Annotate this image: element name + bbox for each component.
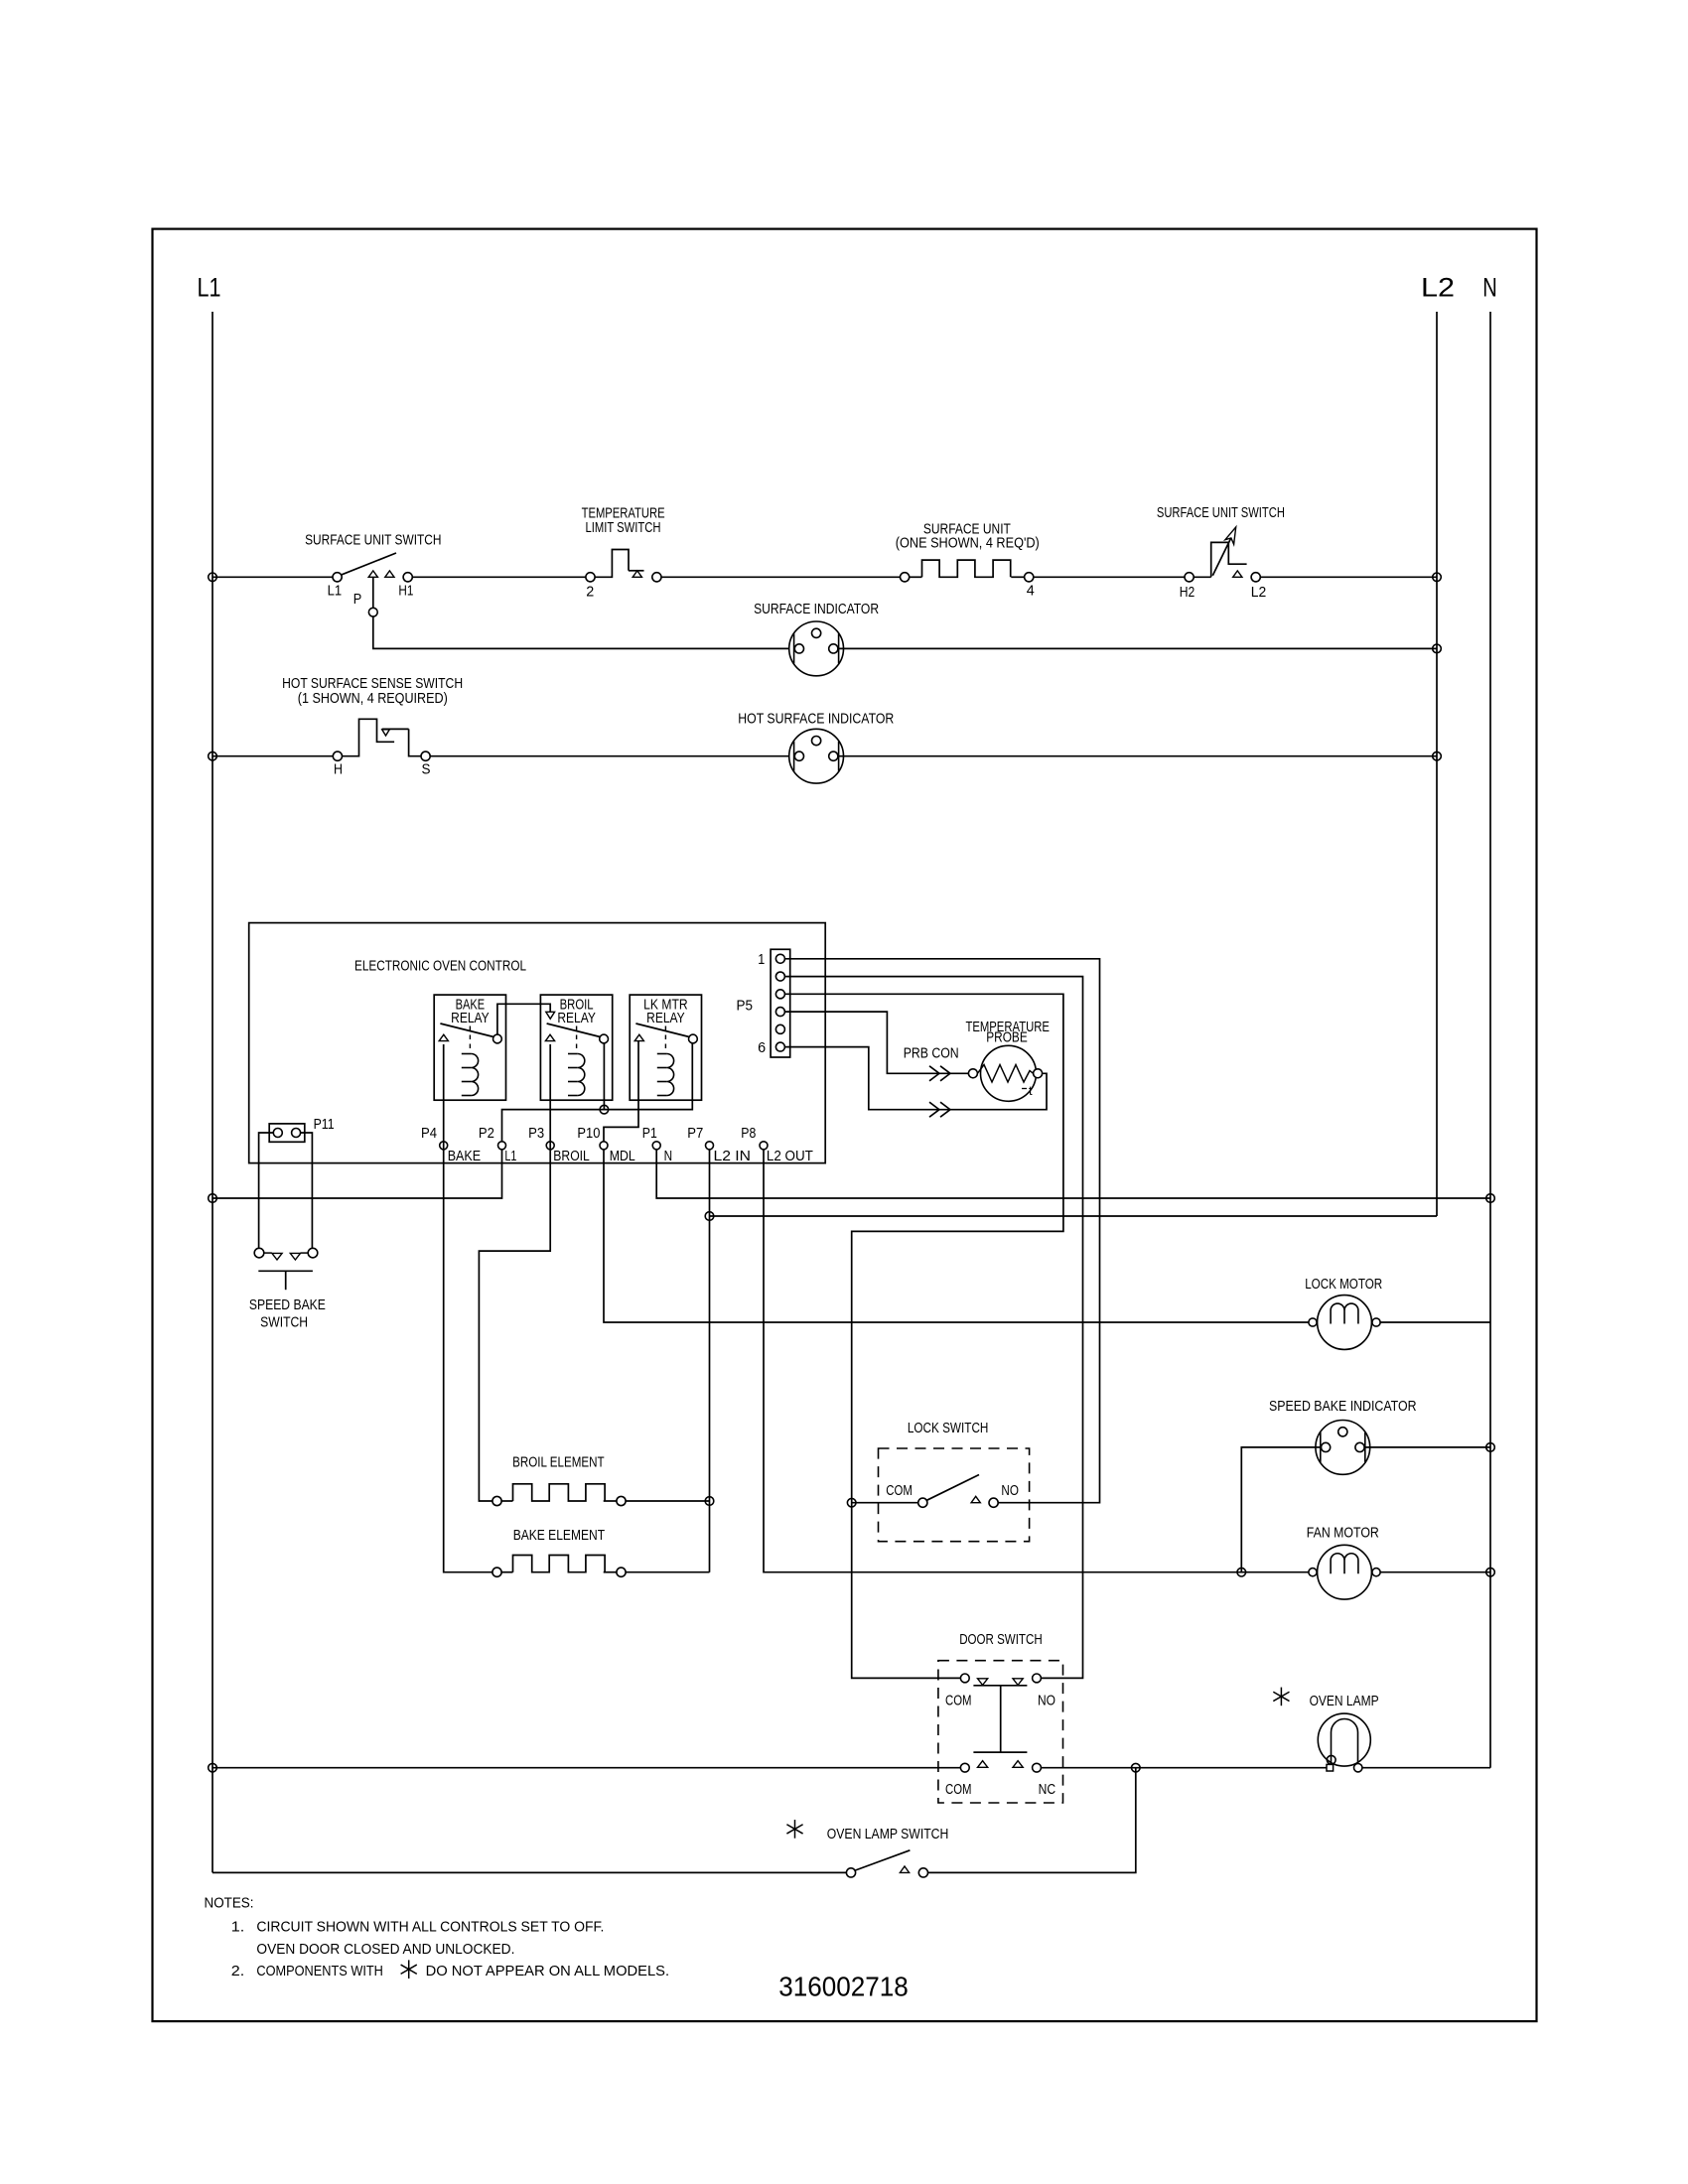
bake relay K1: [434, 995, 505, 1100]
svg-text:RELAY: RELAY: [646, 1011, 685, 1026]
svg-text:COMPONENTS WITH: COMPONENTS WITH: [256, 1964, 383, 1979]
junction L1 top row: [209, 573, 217, 582]
svg-text:RELAY: RELAY: [557, 1011, 596, 1026]
lock motor M1: [1309, 1296, 1380, 1350]
svg-text:L1: L1: [198, 273, 221, 303]
wire L1 to door switch COM bottom: [212, 1767, 960, 1769]
notes text continued: [426, 1964, 669, 1979]
wire surface indicator to L2: [839, 647, 1437, 649]
wire surface unit to surface unit switch 2: [1034, 576, 1185, 578]
svg-text:TEMPERATURE: TEMPERATURE: [582, 505, 665, 521]
wire door switch NC to oven lamp: [1041, 1767, 1327, 1769]
svg-text:OVEN DOOR CLOSED AND UNLOCKED.: OVEN DOOR CLOSED AND UNLOCKED.: [256, 1942, 514, 1958]
svg-text:SURFACE UNIT SWITCH: SURFACE UNIT SWITCH: [1157, 505, 1285, 521]
electronic oven control box: [249, 923, 826, 1163]
wire P3 BROIL to broil element: [479, 1044, 550, 1501]
wire P10 MDL to lock motor: [604, 1150, 1309, 1322]
surface unit element (heating element): [896, 522, 1040, 600]
pin P2 terminal: [479, 1126, 517, 1164]
svg-text:L2: L2: [1421, 272, 1455, 302]
oven lamp switch asterisk (optional component mark): [786, 1820, 802, 1839]
svg-text:COM: COM: [945, 1694, 972, 1709]
junction L1 hot surface row: [209, 751, 217, 760]
svg-text:4: 4: [1027, 584, 1035, 600]
svg-text:RELAY: RELAY: [451, 1011, 490, 1026]
pin P4 terminal: [421, 1126, 481, 1164]
wire bake relay contact to broil relay: [497, 1004, 555, 1034]
junction N rail speed bake indicator: [1486, 1443, 1495, 1452]
svg-text:PROBE: PROBE: [986, 1030, 1028, 1046]
svg-text:L2: L2: [1251, 585, 1267, 601]
wire speed bake indicator to N rail: [1365, 1446, 1490, 1448]
svg-text:H2: H2: [1180, 585, 1196, 601]
wire P1 N to N rail: [656, 1150, 1490, 1198]
svg-text:L2 OUT: L2 OUT: [767, 1149, 813, 1164]
junction broil relay contact on L1 feed: [600, 1105, 609, 1114]
junction N rail fan motor row: [1486, 1568, 1495, 1576]
surface indicator label: [754, 602, 879, 617]
wire branch down to oven lamp switch: [928, 1768, 1136, 1873]
part number 316002718: [778, 1971, 909, 2001]
wire limit switch to surface unit: [661, 576, 901, 578]
svg-text:LOCK MOTOR: LOCK MOTOR: [1305, 1277, 1382, 1293]
oven lamp switch: [827, 1827, 949, 1877]
svg-text:CIRCUIT SHOWN WITH ALL CONTROL: CIRCUIT SHOWN WITH ALL CONTROLS SET TO O…: [256, 1920, 604, 1936]
svg-text:P3: P3: [528, 1126, 544, 1142]
wire LK MTR relay armature to P10 MDL: [604, 1041, 638, 1142]
wire P11 right to speed bake switch: [301, 1133, 313, 1249]
hot surface indicator lamp: [789, 729, 844, 783]
hot surface sense switch: [282, 676, 463, 777]
wire P8 L2 OUT to fan motor row: [764, 1150, 1309, 1572]
junction L1 row A: [209, 1194, 217, 1203]
svg-text:SURFACE INDICATOR: SURFACE INDICATOR: [754, 602, 879, 617]
svg-text:NO: NO: [1038, 1694, 1055, 1709]
wire L1 to surface unit switch: [212, 576, 333, 578]
wire L2 rail: [1436, 312, 1438, 1216]
svg-text:L1: L1: [328, 584, 343, 600]
wire speed bake indicator to fan row: [1241, 1447, 1321, 1572]
border frame: [153, 229, 1537, 2022]
junction L2 top row: [1433, 573, 1442, 582]
svg-text:OVEN LAMP SWITCH: OVEN LAMP SWITCH: [827, 1827, 949, 1843]
svg-text:1.: 1.: [231, 1920, 245, 1936]
wire broil element to P7 junction: [626, 1500, 709, 1502]
wire L1 to hot surface sense switch: [212, 755, 333, 757]
svg-text:P: P: [353, 592, 362, 608]
temperature probe RT1: [904, 1020, 1050, 1101]
surface indicator lamp: [789, 621, 844, 676]
pin P3 terminal: [528, 1126, 590, 1164]
svg-text:2: 2: [586, 584, 594, 600]
svg-text:P2: P2: [479, 1126, 494, 1142]
wire L1 feed to broil and LK MTR relay contacts: [502, 1043, 693, 1142]
speed bake indicator label: [1269, 1399, 1417, 1415]
fan motor label: [1307, 1526, 1379, 1542]
wire pin3 branch to lock switch COM: [852, 1502, 918, 1504]
broil element: [492, 1454, 626, 1505]
node N label: [1482, 273, 1497, 303]
wire oven lamp to N rail: [1362, 1767, 1490, 1769]
wire hot surface indicator to L2: [839, 755, 1437, 757]
svg-text:SPEED BAKE INDICATOR: SPEED BAKE INDICATOR: [1269, 1399, 1417, 1415]
door switch: [938, 1632, 1063, 1803]
svg-text:DOOR SWITCH: DOOR SWITCH: [959, 1632, 1042, 1648]
oven lamp asterisk (optional component mark): [1273, 1688, 1289, 1706]
pin P1 terminal: [642, 1126, 672, 1164]
svg-text:316002718: 316002718: [778, 1971, 909, 2001]
wire surface unit switch 2 to L2: [1260, 576, 1437, 578]
LK MTR relay K3: [630, 995, 701, 1100]
wire L1 rail: [211, 312, 213, 1872]
wire N rail: [1489, 312, 1491, 1768]
speed bake switch: [249, 1248, 326, 1330]
hot surface indicator label: [738, 711, 894, 727]
junction N rail row A: [1486, 1194, 1495, 1203]
svg-text:NOTES:: NOTES:: [205, 1896, 254, 1912]
surface unit switch SW1: [305, 533, 441, 608]
svg-text:P5: P5: [737, 999, 754, 1015]
pin P8 terminal: [741, 1126, 813, 1164]
wire P branch: [368, 577, 793, 648]
notes asterisk mark: [401, 1960, 417, 1979]
svg-text:FAN MOTOR: FAN MOTOR: [1307, 1526, 1379, 1542]
svg-text:OVEN LAMP: OVEN LAMP: [1310, 1694, 1379, 1709]
wire L1 down to oven lamp switch: [212, 1871, 846, 1873]
pin P10 terminal: [577, 1126, 634, 1164]
node L1 label: [198, 273, 221, 303]
svg-text:ELECTRONIC OVEN CONTROL: ELECTRONIC OVEN CONTROL: [354, 958, 526, 974]
lock motor label: [1305, 1277, 1382, 1293]
junction L2 surface indicator row: [1433, 644, 1442, 653]
P5 connector: [737, 949, 790, 1057]
svg-text:BAKE: BAKE: [448, 1149, 482, 1164]
wire H1 to temperature limit switch: [412, 576, 586, 578]
bake element: [492, 1528, 626, 1576]
wire P5 pin4 to temperature probe: [784, 1012, 968, 1081]
wire P7 to L2 rail: [710, 1215, 1438, 1217]
svg-text:N: N: [664, 1149, 673, 1164]
svg-text:S: S: [422, 762, 431, 778]
svg-text:NO: NO: [1001, 1483, 1019, 1499]
fan motor M2: [1309, 1545, 1380, 1599]
svg-text:6: 6: [758, 1040, 766, 1056]
svg-text:BROIL ELEMENT: BROIL ELEMENT: [512, 1454, 605, 1470]
pin P7 terminal: [687, 1126, 751, 1164]
svg-text:H1: H1: [398, 584, 413, 600]
wire P4 BAKE to bake element: [444, 1044, 492, 1572]
svg-text:P11: P11: [314, 1117, 335, 1133]
svg-text:DO NOT APPEAR ON ALL MODELS.: DO NOT APPEAR ON ALL MODELS.: [426, 1964, 669, 1979]
svg-text:P7: P7: [687, 1126, 703, 1142]
svg-text:N: N: [1482, 273, 1497, 303]
junction L2 hot surface row: [1433, 751, 1442, 760]
wire bake element to P7 wire end: [626, 1571, 709, 1573]
node L2 label: [1421, 272, 1455, 302]
speed bake indicator lamp: [1316, 1421, 1370, 1475]
wire P11 left to speed bake switch: [259, 1133, 274, 1249]
svg-text:P1: P1: [642, 1126, 657, 1142]
svg-text:BAKE ELEMENT: BAKE ELEMENT: [513, 1528, 606, 1544]
wire broil relay contact down: [603, 1043, 605, 1110]
oven lamp DS1: [1310, 1694, 1379, 1772]
junction P7 row B: [705, 1212, 714, 1221]
svg-text:2.: 2.: [231, 1964, 245, 1979]
broil relay K2: [540, 995, 612, 1100]
wire lock motor to N rail: [1380, 1321, 1490, 1323]
junction P7 wire at broil element row: [705, 1497, 714, 1506]
temperature limit switch: [582, 505, 665, 600]
svg-text:P8: P8: [741, 1126, 756, 1142]
svg-text:L1: L1: [504, 1149, 516, 1164]
wire P5 pin2 to door switch NO: [784, 977, 1082, 1679]
svg-text:(ONE SHOWN, 4 REQ'D): (ONE SHOWN, 4 REQ'D): [896, 536, 1040, 552]
svg-text:HOT SURFACE SENSE SWITCH: HOT SURFACE SENSE SWITCH: [282, 676, 463, 692]
svg-text:PRB CON: PRB CON: [904, 1045, 959, 1061]
svg-text:MDL: MDL: [610, 1149, 635, 1164]
svg-text:1: 1: [758, 952, 765, 968]
P11 connector: [269, 1117, 334, 1142]
svg-text:L2 IN: L2 IN: [714, 1149, 752, 1164]
svg-text:SWITCH: SWITCH: [260, 1315, 308, 1331]
wire fan motor to N rail: [1380, 1571, 1490, 1573]
svg-text:LOCK SWITCH: LOCK SWITCH: [908, 1421, 989, 1436]
wire P7 L2 IN down to elements: [709, 1150, 711, 1572]
svg-text:(1 SHOWN, 4 REQUIRED): (1 SHOWN, 4 REQUIRED): [298, 691, 448, 707]
junction oven lamp switch branch: [1132, 1763, 1141, 1772]
svg-text:NC: NC: [1039, 1782, 1056, 1798]
surface unit switch SW2: [1157, 505, 1285, 601]
notes text: [205, 1896, 605, 1980]
lock switch: [879, 1421, 1030, 1542]
svg-text:H: H: [334, 762, 343, 778]
wire P5 pin1 to lock switch NO: [784, 959, 1099, 1503]
svg-text:P4: P4: [421, 1126, 437, 1142]
wire sense switch to hot surface indicator: [430, 755, 793, 757]
junction fan motor row speed bake branch: [1237, 1568, 1246, 1576]
svg-text:HOT SURFACE INDICATOR: HOT SURFACE INDICATOR: [738, 711, 894, 727]
svg-text:SPEED BAKE: SPEED BAKE: [249, 1297, 326, 1313]
svg-text:COM: COM: [886, 1483, 913, 1499]
wire P5 pin3 to lock switch COM and door switch COM: [784, 994, 1063, 1678]
svg-text:P10: P10: [577, 1126, 600, 1142]
svg-text:SURFACE UNIT SWITCH: SURFACE UNIT SWITCH: [305, 533, 441, 549]
wire P5 pin6 to temperature probe return: [784, 1047, 1047, 1118]
junction pin3 wire at lock switch COM row: [847, 1498, 856, 1507]
svg-text:t: t: [1029, 1083, 1033, 1098]
svg-text:COM: COM: [945, 1782, 972, 1798]
svg-text:BROIL: BROIL: [553, 1149, 590, 1164]
svg-text:LIMIT SWITCH: LIMIT SWITCH: [586, 520, 661, 536]
junction L1 bottom row: [209, 1763, 217, 1772]
wire L1 to P2: [212, 1150, 502, 1198]
